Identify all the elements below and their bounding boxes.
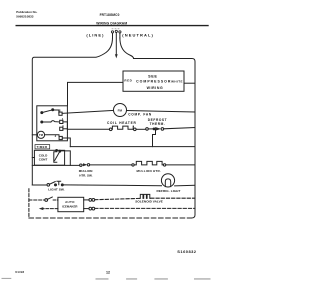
bottom dashed rail [29,217,192,219]
solenoid coil [140,194,150,198]
wire defrost therm to neutral [164,128,195,129]
defrost timer box [37,106,68,141]
svg-text:LIGHT SW.: LIGHT SW. [48,187,64,191]
defrost thermostat switch [146,128,149,131]
svg-text:S160832: S160832 [177,249,196,254]
compressor box [123,71,184,91]
cold control box [34,150,64,165]
svg-text:WHITE: WHITE [171,79,183,83]
icemaker plug row1 [84,199,89,201]
svg-text:MULLION HTR.: MULLION HTR. [137,169,162,173]
wire neutral-side from plug to right rail [120,38,195,218]
svg-text:ICEMAKER: ICEMAKER [62,205,78,209]
svg-text:HTR. SW.: HTR. SW. [79,173,92,177]
label DEFROST THERM. [148,118,167,126]
timer label [35,145,50,149]
wire red line to compressor box [68,82,124,105]
auto icemaker box [58,197,84,211]
dashed wire to solenoid [95,198,140,199]
mullion heater resistor [132,164,134,166]
svg-text:SEE: SEE [148,74,157,78]
svg-text:01/98: 01/98 [15,270,24,274]
mullion heater switch [80,164,82,166]
heater row wire [67,128,109,130]
icemaker dashed left rail [28,189,30,218]
timer internal contacts [41,109,59,123]
timer terminal 3 [59,136,62,139]
svg-text:TIMER: TIMER [37,145,49,149]
wire t3 down [62,138,70,147]
condenser fan motor [114,104,127,117]
header model text [96,13,127,26]
refrigerator light bulb [161,174,174,187]
svg-text:FM: FM [118,108,123,112]
dashed wire solenoid to rail [151,197,195,199]
label MULLION HTR. SW. [79,169,93,177]
svg-text:FRT18GMC0: FRT18GMC0 [100,13,120,17]
wire t4 to heater row [63,128,68,130]
svg-text:THERM.: THERM. [150,122,166,126]
svg-text:CONT: CONT [39,158,48,162]
svg-text:12: 12 [106,270,110,274]
svg-text:SOLENOID VALVE: SOLENOID VALVE [135,199,163,203]
cold control contacts [54,150,61,163]
footer faint marks [2,278,211,280]
svg-text:WIRING: WIRING [147,86,164,90]
icemaker row1 dashed [29,199,45,201]
svg-text:COMPRESSOR: COMPRESSOR [136,79,171,83]
header publication text [16,10,37,18]
icemaker arrow row2 [43,208,58,210]
svg-text:COIL HEATER: COIL HEATER [107,121,137,125]
light row wire [32,184,47,186]
svg-text:5995210833: 5995210833 [16,14,33,18]
coil heater resistor [109,128,112,131]
header rule [16,25,208,27]
timer terminal 2 [59,112,62,115]
wire t3 row to neutral [70,146,195,148]
wire rail to timer motor [32,134,37,136]
ground arrow [115,54,118,58]
light switch [47,184,50,187]
svg-text:COMP. FAN: COMP. FAN [128,113,152,117]
wire t1 step down box edge [63,122,68,129]
power plug prongs [111,30,121,54]
icemaker plug row2 [84,208,89,210]
svg-text:AUTO: AUTO [65,200,75,204]
wire white to neutral rail [184,82,195,84]
timer terminal 1 [60,120,63,123]
defrost limiter hook [153,130,156,147]
svg-text:REFRIG. LIGHT: REFRIG. LIGHT [157,189,181,193]
dashed row2 to rail [95,207,195,209]
timer terminal 4 [60,127,63,130]
svg-text:(LINE): (LINE) [86,33,104,38]
wire line-side from plug to left rail [32,38,112,185]
mullion row wire [32,164,79,166]
icemaker switch [45,199,48,202]
header tiny dots [112,28,119,30]
wire comp fan to neutral [127,111,196,113]
svg-text:RED: RED [124,79,132,83]
timer motor TM [37,131,44,138]
wire rail to cold control [32,157,34,159]
svg-text:(NEUTRAL): (NEUTRAL) [122,33,154,38]
wire cold control to mullion row [60,151,71,166]
wire t2 to comp fan [62,110,113,113]
